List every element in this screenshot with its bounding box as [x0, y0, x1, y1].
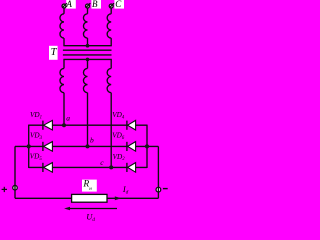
transformer T core line 1 [63, 49, 112, 51]
svg-text:b: b [90, 135, 94, 144]
wire row 1 [29, 124, 147, 126]
primary winding B [83, 14, 87, 38]
wire phase b down [87, 93, 89, 147]
transformer T core line 2 [63, 54, 112, 56]
wire bottom left [15, 197, 72, 199]
wire B lead [87, 8, 89, 14]
secondary winding a [60, 68, 64, 92]
label box C [114, 0, 124, 9]
secondary winding b [83, 68, 87, 92]
primary winding C [107, 14, 111, 38]
wire C lead [110, 8, 112, 14]
wire row 3 [29, 166, 147, 168]
wire A lead [63, 8, 65, 14]
wire secondary c lead [110, 59, 112, 68]
node secondary star [86, 58, 90, 62]
terminal B [86, 4, 90, 8]
node primary neutral [86, 44, 90, 48]
node phase a row1 [62, 123, 66, 127]
diode VD5 [43, 163, 53, 173]
wire row 2 [15, 145, 158, 147]
node left bus row2 [27, 144, 31, 148]
wire primary B to neutral bar [87, 38, 89, 46]
node right bus row2 [145, 144, 149, 148]
wire phase a down [63, 93, 65, 126]
terminal C [109, 4, 113, 8]
terminal plus output [13, 185, 18, 190]
wire primary A to neutral bar [63, 38, 65, 46]
svg-text:B: B [92, 0, 98, 9]
secondary winding c [107, 68, 111, 92]
voltage arrow Ud [69, 208, 117, 210]
svg-text:C: C [115, 0, 122, 9]
label box R [82, 180, 97, 192]
svg-text:a: a [66, 113, 70, 122]
primary winding A [60, 14, 64, 38]
svg-text:A: A [65, 0, 72, 9]
wire secondary star bar [63, 58, 111, 60]
terminal A [62, 4, 66, 8]
wire left output down [14, 146, 16, 198]
wire primary C to neutral bar [110, 38, 112, 46]
label plus [2, 187, 7, 192]
label minus [163, 188, 168, 190]
wire right output down [157, 146, 159, 198]
wire left bus [28, 125, 30, 168]
diode VD3 [43, 142, 53, 152]
wire secondary a lead [63, 59, 65, 68]
resistor R load [72, 194, 107, 202]
wire right bus [146, 125, 148, 168]
wire secondary b lead [87, 59, 89, 68]
label box T [49, 46, 58, 60]
label box A [66, 0, 76, 9]
wire phase c down [110, 93, 112, 168]
wire bottom right [107, 197, 158, 199]
diode VD6 [127, 142, 136, 152]
diode VD4 [127, 120, 136, 130]
current arrow Id [115, 196, 121, 200]
terminal minus output [156, 187, 161, 192]
wire primary neutral bar [63, 45, 111, 47]
label box B [91, 0, 101, 9]
node phase c row3 [109, 165, 113, 169]
diode VD2 [127, 163, 136, 173]
node phase b row2 [86, 144, 90, 148]
diode VD1 [43, 120, 53, 130]
